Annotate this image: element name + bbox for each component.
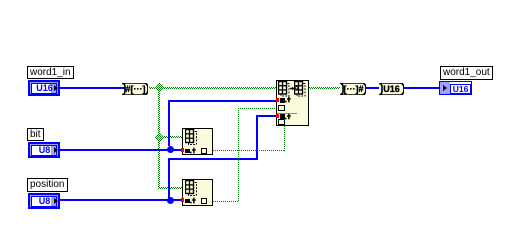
node Index Array 1 [182,128,213,155]
pin index (Index Array 2) [185,199,190,203]
label position [27,178,68,192]
pin unused (Index Array 2) [201,198,207,204]
junction dot position [167,197,174,204]
wire position transfer horizontal (blue) [168,158,258,160]
pin index1 (RAS) [280,114,285,119]
pin glyph .t (RAS index0) [285,96,292,103]
svg-text:#[···]: #[···] [126,84,146,94]
icon source array grid (RAS) [278,81,290,97]
pin glyph .t (Index Array 2) [190,197,197,204]
wire boolean-array: bubble1 to Replace Array Subset (green zigzag) [148,87,276,89]
bubble1 number-to-boolean-array #[...] [122,83,148,95]
wire boolean scalar into RAS element0 (dotted green) [238,108,276,109]
icon arrow (RAS) [290,86,295,91]
wire word1_in to bubble1 (blue U16) [60,87,125,89]
pin index0 (RAS) [280,98,285,103]
junction diamond 2 [155,133,164,142]
wire boolean-array vertical: junction to Index Array 2 [158,91,160,189]
bubble2 boolean-array-to-number [...]# [340,83,366,95]
icon array grid (Index Array 1) [185,129,198,146]
pin element0 (RAS) [278,105,285,112]
terminal bit U8 [28,142,60,158]
wire position horizontal (blue) [60,199,182,201]
wire position vertical to RAS index1 (blue) [256,116,258,160]
icon array grid (Index Array 2) [185,180,198,197]
node Index Array 2 [182,179,213,206]
wire bubble3 to word1_out (blue) [404,87,439,89]
label word1_out [440,66,493,80]
wire bit horizontal (blue) [60,149,182,151]
terminal word1_out U16 indicator [439,81,472,95]
wire boolean scalar vertical up (dotted green) [238,108,239,202]
svg-text:U16: U16 [383,84,400,94]
terminal position U8 [28,193,60,209]
pin unused (Index Array 1) [201,148,207,154]
label word1_in [27,66,74,79]
separator (RAS) [277,113,297,115]
label bit [27,128,44,141]
coercion dot Index Array 2 index [181,198,184,202]
icon result array grid with replaced element (RAS) [294,81,306,97]
terminal word1_in U16 [28,80,60,96]
wire boolean scalar: Index Array 1 output (dotted green) [213,150,284,151]
wire boolean-array bottom into Index Array 2 [158,187,182,189]
wire boolean-array branch to Index Array 1 [162,136,182,138]
wire position branch up (blue) [168,160,170,198]
wire boolean scalar up into RAS element1 (dotted green) [284,126,285,151]
pin glyph .t (RAS index1) [285,113,292,120]
svg-text:[···]#: [···]# [344,84,364,94]
wire bit to RAS index0 (blue) [168,100,276,102]
wire boolean scalar: Index Array 2 output (dotted green) [213,201,239,202]
pin index (Index Array 1) [185,149,190,153]
coercion dot RAS index1 [276,114,279,118]
wire into RAS index1 (blue) [256,115,276,117]
wire bubble2 to bubble3 (blue) [366,87,379,89]
junction dot bit [167,146,174,153]
bubble3 to-U16 conversion [379,83,404,95]
pin glyph .t (Index Array 1) [190,147,197,154]
coercion dot Index Array 1 index [181,148,184,152]
wire boolean-array: RAS output to bubble2 [308,87,340,89]
pin element1 (RAS) [278,119,285,126]
wire bit branch up (blue) [168,100,170,146]
coercion dot RAS index0 [276,98,279,102]
node Replace Array Subset [276,80,309,126]
junction diamond 1 [155,83,164,92]
